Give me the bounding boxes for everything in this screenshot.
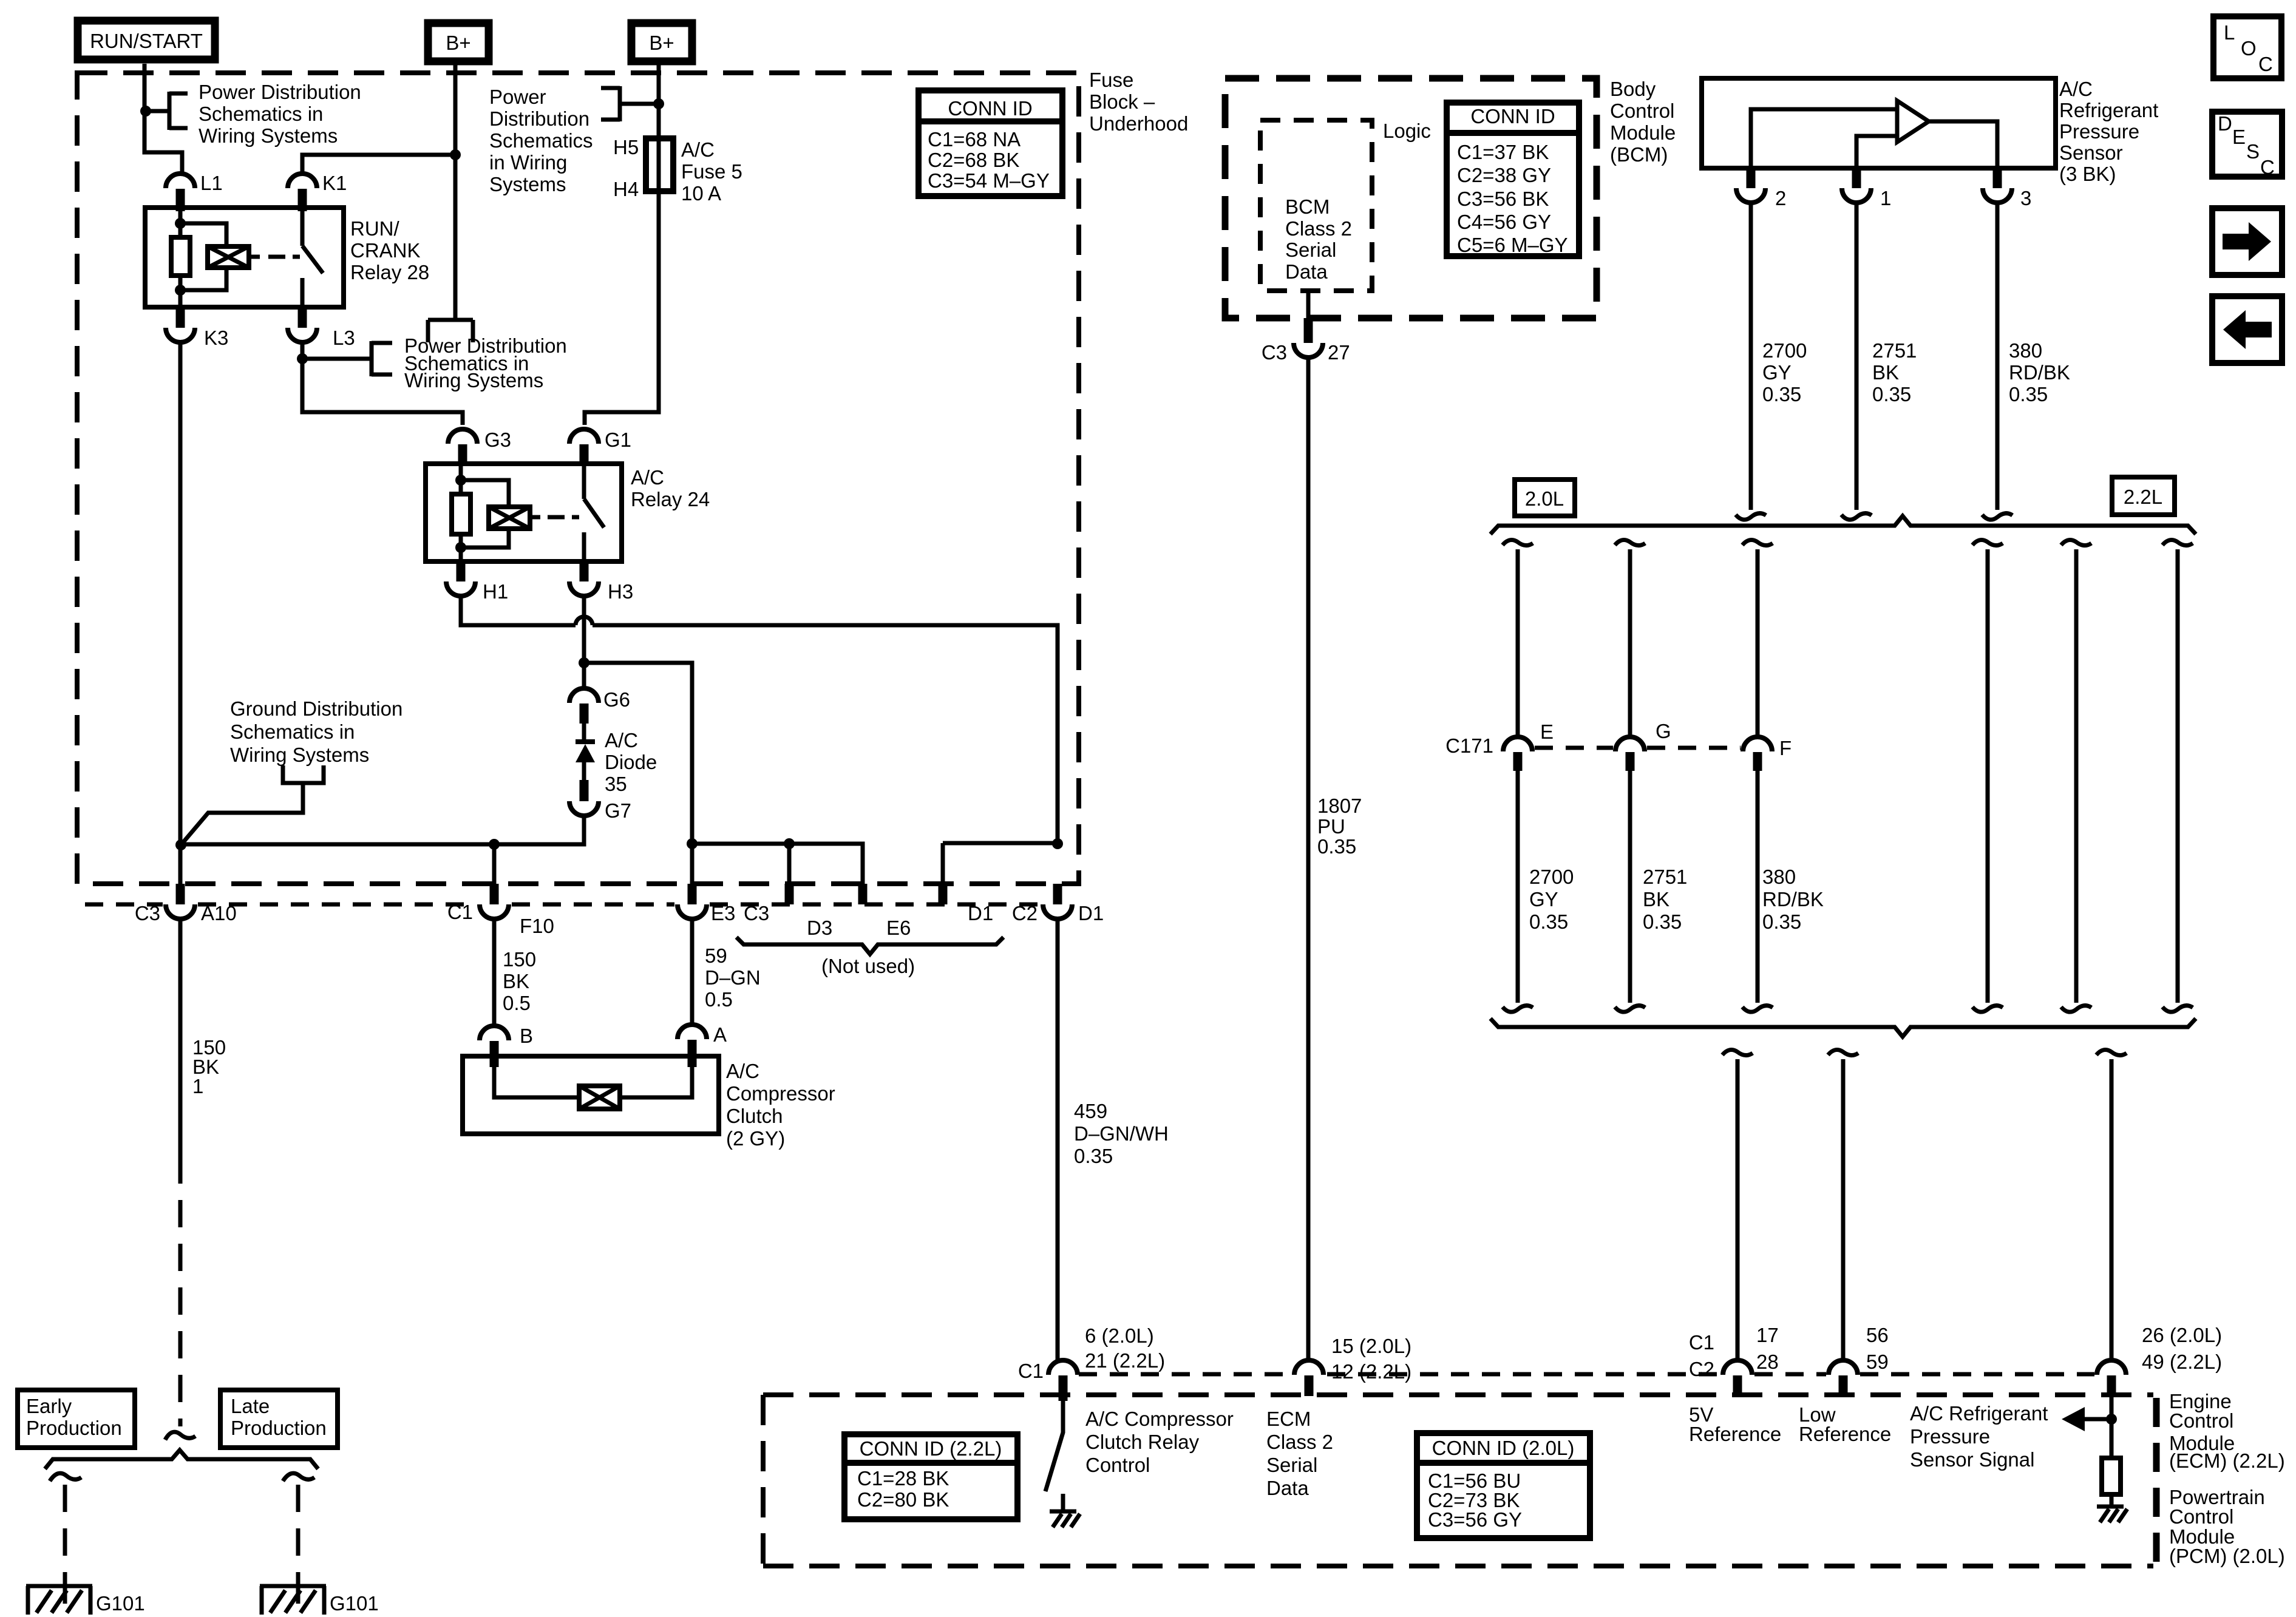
connector E3: [678, 884, 735, 924]
wire 150 BK 1 (A10 to ground splice): [178, 919, 183, 1426]
wire B+1 down: [453, 61, 458, 320]
svg-text:Module: Module: [1610, 121, 1676, 144]
label 56 59: [1866, 1324, 1889, 1373]
wire H1 to D1 loop: [461, 596, 1058, 844]
wire fuse to G1: [585, 191, 659, 425]
svg-text:(BCM): (BCM): [1610, 143, 1668, 166]
wire pressure signal drop: [2096, 1049, 2127, 1360]
resistor ECM pullup: [2102, 1458, 2121, 1507]
svg-text:C3=54 M–GY: C3=54 M–GY: [928, 169, 1050, 192]
svg-text:C2: C2: [1689, 1358, 1714, 1380]
label Low Reference: [1799, 1403, 1891, 1445]
wire branch to E3: [584, 663, 692, 884]
wire sensor output: [1929, 121, 1997, 168]
table CONN ID (fuse block): [919, 90, 1062, 196]
svg-text:(ECM) (2.2L): (ECM) (2.2L): [2169, 1449, 2285, 1472]
svg-text:1: 1: [192, 1075, 203, 1097]
connector A/C refrigerant pressure sensor signal: [2097, 1360, 2126, 1396]
node B+ label box 1: [428, 23, 489, 61]
wire K3 down to A10: [178, 342, 183, 884]
svg-text:S: S: [2246, 140, 2260, 163]
svg-text:F10: F10: [520, 915, 554, 937]
svg-text:(PCM) (2.0L): (PCM) (2.0L): [2169, 1545, 2285, 1567]
wire RUN/START down to L1: [144, 64, 182, 174]
ground ECM resistor: [2097, 1507, 2127, 1522]
svg-text:L3: L3: [333, 327, 355, 349]
svg-text:0.35: 0.35: [1643, 910, 1682, 933]
connector low reference: [1829, 1360, 1858, 1396]
wire long 380 RD/BK (F): [1742, 540, 1773, 1012]
node B+ label box 2: [631, 23, 692, 61]
svg-text:H1: H1: [483, 580, 508, 603]
svg-text:Reference: Reference: [1799, 1423, 1891, 1445]
svg-text:C2=38 GY: C2=38 GY: [1457, 164, 1551, 186]
svg-text:E: E: [2232, 126, 2246, 148]
svg-text:GY: GY: [1529, 888, 1558, 910]
svg-text:A/C Compressor: A/C Compressor: [1085, 1408, 1234, 1430]
connector 5V reference: [1723, 1360, 1752, 1396]
svg-text:A10: A10: [201, 902, 237, 924]
svg-text:3: 3: [2020, 187, 2031, 209]
svg-text:A/C: A/C: [605, 729, 638, 751]
svg-text:1807: 1807: [1317, 795, 1362, 817]
svg-text:B+: B+: [649, 32, 674, 54]
svg-text:Control: Control: [1610, 100, 1674, 122]
svg-text:L1: L1: [200, 172, 223, 194]
svg-text:D1: D1: [1078, 902, 1104, 924]
svg-text:C1=37 BK: C1=37 BK: [1457, 141, 1549, 163]
svg-text:B+: B+: [446, 32, 470, 54]
svg-text:C2: C2: [1012, 902, 1038, 924]
label 2700 GY 0.35 (lower): [1529, 866, 1574, 933]
node junction dot C2-D1: [1052, 838, 1063, 849]
svg-text:2700: 2700: [1529, 866, 1574, 888]
connector C171 pin F: [1743, 737, 1792, 771]
svg-text:in Wiring: in Wiring: [489, 151, 567, 174]
svg-text:Pressure: Pressure: [2059, 120, 2139, 143]
svg-text:Refrigerant: Refrigerant: [2059, 99, 2158, 121]
node power distribution stub bracket (below B+1): [428, 320, 473, 342]
label ECM Class 2 Serial Data: [1266, 1408, 1333, 1499]
label A/C Refrigerant Pressure Sensor (3 BK): [2059, 78, 2158, 185]
svg-text:G1: G1: [605, 429, 631, 451]
wire C1/F10 to B: [492, 919, 497, 1026]
svg-text:15 (2.0L): 15 (2.0L): [1331, 1335, 1411, 1357]
icon left arrow box: [2212, 296, 2282, 363]
connector C171 pin E: [1445, 720, 1554, 771]
label 150 BK 1: [192, 1036, 226, 1097]
svg-text:C1: C1: [1689, 1331, 1714, 1354]
connector C171 pin G: [1615, 720, 1671, 771]
svg-text:(Not used): (Not used): [821, 955, 915, 977]
wire long 2751 BK (G): [1615, 540, 1645, 1012]
label Engine Control Module (ECM) (2.2L): [2169, 1390, 2285, 1472]
label 15 (2.0L) 12 (2.2L): [1331, 1335, 1411, 1383]
wire 459 D-GN/WH to ECM: [1056, 919, 1060, 1360]
wire early production ground lead: [63, 1485, 67, 1586]
svg-text:CONN ID: CONN ID: [1470, 105, 1555, 127]
arrow signal direction: [2062, 1407, 2111, 1431]
svg-text:C3=56 BK: C3=56 BK: [1457, 188, 1549, 210]
connector sensor pin 3: [1983, 168, 2031, 209]
svg-text:C2=68 BK: C2=68 BK: [928, 149, 1019, 171]
svg-text:2751: 2751: [1643, 866, 1687, 888]
svg-text:2700: 2700: [1762, 339, 1807, 362]
svg-text:Control: Control: [2169, 1505, 2233, 1528]
svg-text:Late: Late: [231, 1395, 270, 1417]
svg-text:49 (2.2L): 49 (2.2L): [2142, 1351, 2222, 1373]
node junction dot K3 wire / ground bus: [175, 839, 186, 850]
node wire break curl (sensor wire 1): [1841, 514, 1872, 520]
svg-text:L: L: [2224, 21, 2235, 44]
svg-text:H5: H5: [613, 136, 639, 158]
wire relay24 coil loop: [461, 480, 509, 547]
icon LOC box: [2213, 16, 2281, 78]
svg-text:C3: C3: [744, 902, 769, 924]
node junction dot relay28 bottom: [175, 285, 186, 296]
wire H3 down to G6 junction: [582, 596, 586, 688]
svg-text:Body: Body: [1610, 78, 1656, 100]
svg-text:C3: C3: [135, 902, 160, 924]
wire D3 stub: [787, 844, 792, 884]
node junction dot H3/E3 branch: [579, 657, 589, 668]
node RUN/START label box: [78, 21, 215, 59]
svg-text:Clutch: Clutch: [726, 1105, 783, 1127]
svg-text:Production: Production: [231, 1417, 327, 1439]
svg-text:C1=68 NA: C1=68 NA: [928, 128, 1021, 151]
wire 5V reference drop: [1722, 1049, 1753, 1360]
svg-text:E3: E3: [711, 902, 735, 924]
connector G3: [448, 429, 511, 466]
label A/C Fuse 5 10 A: [681, 138, 742, 205]
wire late production ground lead: [296, 1485, 301, 1586]
svg-text:17: 17: [1756, 1324, 1779, 1346]
brace early/late split: [45, 1450, 318, 1469]
wire 2700 GY upper: [1749, 203, 1753, 510]
connector A: [678, 1023, 727, 1067]
connector sensor pin 1: [1842, 168, 1891, 209]
op-amp sensor amplifier: [1897, 101, 1929, 142]
resistor relay28 coil suppression: [171, 237, 190, 276]
svg-text:A: A: [713, 1023, 727, 1046]
node junction dot relay24 bottom: [455, 542, 466, 553]
label Power Distribution Schematics in Wiring Systems (L3): [404, 334, 567, 392]
wire L3 down and over to G3: [302, 342, 463, 425]
wire relay24 mechanical link dashed: [548, 515, 579, 520]
svg-text:(3 BK): (3 BK): [2059, 163, 2116, 185]
svg-text:BCM: BCM: [1285, 195, 1330, 218]
svg-text:2.2L: 2.2L: [2124, 486, 2162, 508]
coil relay28 winding: [208, 246, 260, 268]
node junction dot signal: [2106, 1414, 2117, 1425]
label 1807 PU 0.35: [1317, 795, 1362, 858]
brace harness bottom: [1490, 1019, 2196, 1037]
label RUN/CRANK Relay 28: [350, 217, 429, 283]
connector L3: [288, 307, 355, 349]
svg-text:Schematics: Schematics: [489, 129, 593, 152]
svg-text:Relay 24: Relay 24: [631, 488, 710, 510]
ground G101 (early): [26, 1586, 145, 1615]
svg-text:C5=6 M–GY: C5=6 M–GY: [1457, 234, 1568, 256]
svg-text:35: 35: [605, 773, 627, 795]
wire relay28 mechanical link dashed: [268, 255, 300, 259]
label C1 C2: [1689, 1331, 1714, 1380]
svg-text:O: O: [2241, 37, 2257, 59]
label Fuse Block - Underhood: [1089, 69, 1188, 135]
wire C1-F10 drop: [492, 844, 497, 884]
svg-text:C171: C171: [1445, 734, 1493, 757]
wire 380 RD/BK upper: [1995, 203, 2000, 510]
connector ECM class 2 serial data: [1294, 1360, 1323, 1396]
relay A/C Relay 24 box: [426, 464, 622, 561]
svg-text:0.35: 0.35: [1762, 383, 1801, 405]
label A/C Relay 24: [631, 466, 710, 510]
svg-text:2751: 2751: [1872, 339, 1917, 362]
svg-text:Wiring Systems: Wiring Systems: [404, 369, 543, 392]
svg-text:F: F: [1779, 737, 1792, 759]
svg-text:A/C: A/C: [726, 1060, 759, 1082]
wire E3 to A: [690, 919, 695, 1025]
svg-text:H3: H3: [608, 580, 633, 603]
label A/C Compressor Clutch Relay Control: [1085, 1408, 1234, 1476]
connector K3: [166, 307, 228, 349]
svg-text:RD/BK: RD/BK: [2009, 361, 2070, 384]
label Body Control Module (BCM): [1610, 78, 1676, 166]
module BCM Class 2 Serial Data inner dashed box: [1260, 120, 1372, 291]
svg-text:C1: C1: [447, 901, 473, 923]
node junction dot on fuse wire: [653, 98, 664, 109]
module BCM dashed box: [1225, 78, 1597, 318]
svg-text:Power: Power: [489, 86, 546, 108]
svg-text:Early: Early: [26, 1395, 72, 1417]
table CONN ID (BCM): [1447, 103, 1579, 256]
svg-text:CONN ID (2.2L): CONN ID (2.2L): [860, 1437, 1002, 1460]
svg-text:K1: K1: [322, 172, 347, 194]
node Late Production label box: [220, 1390, 338, 1448]
svg-text:Class 2: Class 2: [1266, 1431, 1333, 1453]
node wire break curl (early production): [50, 1473, 81, 1481]
label 2751 BK 0.35 (lower): [1643, 866, 1687, 933]
switch relay24 contacts: [584, 466, 604, 561]
svg-text:6 (2.0L): 6 (2.0L): [1085, 1324, 1154, 1347]
node junction dot E3 bus: [687, 838, 698, 849]
wire long 2700 GY (E): [1503, 540, 1533, 1012]
svg-text:A/C Refrigerant: A/C Refrigerant: [1910, 1402, 2048, 1425]
label Power Distribution Schematics in Wiring Systems (top left): [199, 81, 361, 147]
ground G101 (late): [260, 1586, 379, 1615]
wire ECM connector row dashed: [1079, 1372, 2094, 1377]
node power distribution reference bracket (L3): [302, 341, 392, 376]
svg-text:C: C: [2260, 156, 2275, 178]
switch relay28 contacts: [302, 211, 323, 307]
node wire break curl (A10 splice): [165, 1432, 195, 1440]
svg-text:1: 1: [1880, 187, 1891, 209]
svg-text:Wiring Systems: Wiring Systems: [230, 744, 369, 766]
svg-text:RUN/START: RUN/START: [90, 30, 203, 52]
connector sensor pin 2: [1736, 168, 1786, 209]
icon DESC box: [2212, 112, 2282, 178]
svg-text:CONN ID (2.0L): CONN ID (2.0L): [1432, 1437, 1575, 1459]
svg-text:E: E: [1540, 720, 1554, 743]
svg-text:Underhood: Underhood: [1089, 112, 1188, 135]
node wire break curl (sensor wire 2): [1736, 514, 1766, 520]
svg-text:Control: Control: [1085, 1454, 1150, 1476]
wire E3 bus to not-used stubs: [692, 844, 863, 884]
ground ECM internal: [1050, 1511, 1080, 1527]
connector C3/27 (BCM): [1262, 318, 1350, 364]
svg-text:RD/BK: RD/BK: [1762, 888, 1824, 910]
connector G6: [569, 688, 630, 724]
svg-text:Systems: Systems: [489, 173, 566, 195]
fuse A/C Fuse 5 10A: [646, 138, 673, 191]
node junction dot C1-F10 tap: [489, 839, 500, 850]
svg-text:21 (2.2L): 21 (2.2L): [1085, 1349, 1165, 1372]
wire connector row dashed (fuse block bottom): [85, 903, 1040, 907]
label 150 BK 0.5: [503, 948, 536, 1014]
svg-text:0.35: 0.35: [1762, 910, 1801, 933]
svg-text:Data: Data: [1285, 260, 1328, 283]
svg-text:CRANK: CRANK: [350, 239, 421, 262]
svg-text:H4: H4: [613, 178, 639, 200]
resistor relay24 coil suppression: [452, 494, 470, 534]
node ground distribution reference bracket: [181, 765, 324, 845]
ECM/PCM dashed box: [763, 1395, 2153, 1566]
svg-text:0.35: 0.35: [1529, 910, 1568, 933]
svg-text:CONN ID: CONN ID: [948, 97, 1032, 120]
wire relay24 coil left leg: [459, 466, 463, 561]
svg-text:G101: G101: [96, 1592, 145, 1615]
wire junction to K1: [302, 155, 455, 174]
label Powertrain Control Module (PCM) (2.0L): [2169, 1486, 2285, 1567]
svg-text:Compressor: Compressor: [726, 1082, 835, 1105]
svg-text:0.35: 0.35: [1074, 1145, 1113, 1167]
svg-text:G3: G3: [484, 429, 511, 451]
connector C1/F10: [447, 884, 554, 937]
ECM/PCM divider dashed: [2153, 1398, 2160, 1566]
connector L1: [166, 172, 223, 211]
svg-text:0.5: 0.5: [503, 992, 531, 1014]
node 2.2L label box: [2112, 477, 2175, 515]
svg-text:(2 GY): (2 GY): [726, 1127, 785, 1150]
svg-text:Serial: Serial: [1285, 239, 1336, 261]
svg-text:D3: D3: [807, 917, 832, 939]
svg-text:Sensor: Sensor: [2059, 141, 2123, 164]
svg-text:Data: Data: [1266, 1477, 1309, 1499]
wire relay coil left leg: [178, 211, 183, 307]
pin E6 stub end: [863, 884, 911, 939]
wire long 6: [2162, 540, 2193, 1012]
svg-text:C4=56 GY: C4=56 GY: [1457, 211, 1551, 233]
svg-text:Clutch Relay: Clutch Relay: [1085, 1431, 1200, 1453]
svg-text:Diode: Diode: [605, 751, 657, 773]
svg-text:59: 59: [1866, 1351, 1889, 1373]
connector H1: [446, 561, 508, 603]
svg-text:Relay 28: Relay 28: [350, 261, 429, 283]
label 59 D-GN 0.5: [705, 944, 761, 1011]
svg-text:26 (2.0L): 26 (2.0L): [2142, 1324, 2222, 1346]
wire B+2 down to fuse: [657, 61, 661, 138]
svg-text:0.5: 0.5: [705, 988, 733, 1011]
node junction dot on L3 wire: [297, 353, 308, 364]
wire compressor clutch internal: [494, 1063, 692, 1097]
svg-text:K3: K3: [204, 327, 228, 349]
svg-text:56: 56: [1866, 1324, 1889, 1346]
wire C171 connector dashed: [1535, 746, 1741, 750]
svg-text:A/C: A/C: [631, 466, 664, 489]
svg-text:Pressure: Pressure: [1910, 1425, 1990, 1448]
svg-text:C2=80 BK: C2=80 BK: [857, 1488, 949, 1511]
relay RUN/CRANK Relay 28 box: [145, 208, 344, 307]
node wire break curl (late production): [283, 1473, 314, 1481]
node power distribution reference bracket (top left): [169, 92, 188, 130]
svg-text:A/C: A/C: [681, 138, 715, 161]
svg-text:380: 380: [1762, 866, 1796, 888]
coil compressor clutch winding: [579, 1086, 620, 1109]
svg-text:BK: BK: [1872, 361, 1899, 384]
svg-text:Distribution: Distribution: [489, 107, 589, 130]
svg-text:D1: D1: [968, 902, 993, 924]
svg-text:Class 2: Class 2: [1285, 217, 1352, 240]
node junction dot on RUN/START wire: [140, 106, 151, 117]
svg-text:Fuse 5: Fuse 5: [681, 160, 742, 183]
svg-text:Serial: Serial: [1266, 1454, 1317, 1476]
label 17 28: [1756, 1324, 1779, 1373]
connector G7: [569, 780, 631, 822]
label A/C Diode 35: [605, 729, 657, 795]
node junction dot relay24 top: [455, 475, 466, 486]
svg-text:2: 2: [1775, 187, 1786, 209]
svg-text:E6: E6: [886, 917, 911, 939]
svg-text:Power Distribution: Power Distribution: [199, 81, 361, 103]
svg-text:459: 459: [1074, 1100, 1107, 1122]
component A/C Compressor Clutch box: [463, 1056, 719, 1134]
svg-text:PU: PU: [1317, 815, 1345, 838]
svg-text:G: G: [1656, 720, 1671, 742]
wire sensor supply input: [1751, 109, 1896, 168]
svg-text:G101: G101: [330, 1592, 379, 1615]
svg-text:2.0L: 2.0L: [1525, 487, 1564, 510]
svg-text:BK: BK: [503, 970, 529, 992]
connector C3/A10: [135, 884, 237, 924]
svg-text:0.35: 0.35: [1317, 835, 1356, 858]
wire G7 to ground bus: [181, 816, 584, 844]
node junction dot relay28 top: [175, 218, 186, 229]
label Power Distribution Schematics in Wiring Systems (B+ right): [489, 86, 593, 195]
label 2751 BK 0.35 (upper): [1872, 339, 1917, 405]
svg-text:Logic: Logic: [1383, 120, 1431, 142]
svg-text:Wiring Systems: Wiring Systems: [199, 124, 338, 147]
label 459 D-GN/WH 0.35: [1074, 1100, 1169, 1167]
pin D1 stub end: [943, 884, 993, 924]
label 6 (2.0L) 21 (2.2L): [1085, 1324, 1165, 1372]
svg-text:BK: BK: [1643, 888, 1669, 910]
svg-text:G6: G6: [603, 688, 630, 711]
svg-text:ECM: ECM: [1266, 1408, 1311, 1430]
svg-text:Reference: Reference: [1689, 1423, 1781, 1445]
svg-text:0.35: 0.35: [2009, 383, 2048, 405]
fuse block underhood dashed outline: [77, 73, 1079, 884]
connector B: [480, 1025, 533, 1067]
brace (not used) group: [736, 937, 1004, 954]
wire relay28 coil loop: [180, 223, 226, 290]
svg-text:Schematics in: Schematics in: [199, 103, 323, 125]
svg-text:Sensor Signal: Sensor Signal: [1910, 1448, 2034, 1471]
node junction dot on B+1 wire: [450, 149, 461, 160]
connector C1 clutch relay control: [1018, 1360, 1078, 1401]
label A/C Compressor Clutch (2 GY): [726, 1060, 835, 1150]
svg-text:C1=28 BK: C1=28 BK: [857, 1467, 949, 1490]
svg-text:Ground Distribution: Ground Distribution: [230, 697, 402, 720]
